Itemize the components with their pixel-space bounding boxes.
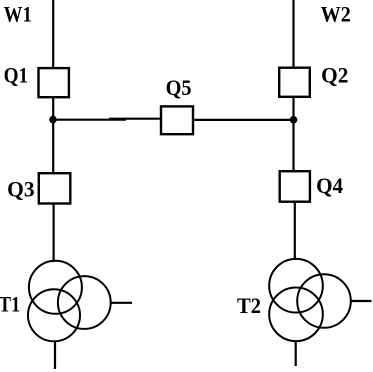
svg-text:T1: T1 xyxy=(0,291,20,316)
breaker Q4 xyxy=(280,171,310,202)
wire Q1 to left junction xyxy=(52,98,54,121)
svg-text:Q4: Q4 xyxy=(316,173,343,198)
wire bus right segment Q5 to right junction xyxy=(194,119,295,121)
svg-text:Q1: Q1 xyxy=(4,62,29,87)
wire T1 right stub xyxy=(111,302,133,304)
node left bus junction xyxy=(49,116,57,124)
wire bus left segment to Q5 (overlapping jog) xyxy=(109,118,161,120)
breaker Q1 xyxy=(39,68,69,97)
svg-text:T2: T2 xyxy=(237,293,261,318)
wire bus left segment from junction xyxy=(53,119,126,121)
node right bus junction xyxy=(290,116,298,124)
wire left junction to Q3 xyxy=(52,120,54,173)
wire T2 right stub xyxy=(351,300,372,302)
breaker Q2 xyxy=(279,68,310,97)
wire T2 bottom stub xyxy=(295,341,297,366)
svg-text:Q5: Q5 xyxy=(166,75,192,100)
svg-text:W1: W1 xyxy=(4,1,32,26)
wire feeder W2 to Q2 xyxy=(292,0,294,67)
transformer T1 xyxy=(28,261,111,342)
svg-text:Q3: Q3 xyxy=(7,176,34,201)
wire Q4 to transformer T2 xyxy=(294,202,296,261)
breaker Q5 xyxy=(161,106,193,134)
transformer T2 xyxy=(269,259,351,341)
wire Q2 to right junction to Q4 xyxy=(292,97,294,171)
svg-text:W2: W2 xyxy=(321,1,351,26)
breaker Q3 xyxy=(39,173,71,203)
wire feeder W1 to Q1 xyxy=(52,0,54,68)
svg-text:Q2: Q2 xyxy=(321,62,348,87)
wire T1 bottom stub xyxy=(54,341,56,369)
wire Q3 to transformer T1 xyxy=(52,204,54,263)
